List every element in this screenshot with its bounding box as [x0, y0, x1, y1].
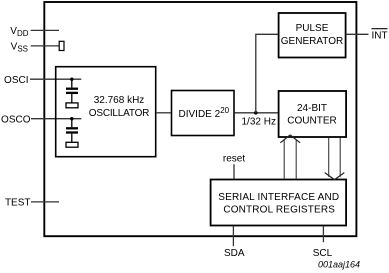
node OSCI junction: [70, 78, 73, 81]
svg-text:SCL: SCL: [313, 248, 333, 259]
bus arrow serial interface to counter (up): [280, 135, 300, 179]
pin OSCO: [1, 114, 31, 125]
net label reset: [223, 154, 245, 165]
svg-text:001aaj164: 001aaj164: [318, 259, 360, 269]
svg-text:SERIAL INTERFACE AND: SERIAL INTERFACE AND: [218, 192, 339, 203]
wire OSCI: [30, 78, 81, 80]
wire SCL: [322, 226, 324, 243]
svg-text:24-BIT: 24-BIT: [297, 103, 327, 114]
svg-text:reset: reset: [223, 154, 245, 165]
oscillator block: [56, 67, 156, 157]
node OSCO junction: [70, 117, 73, 120]
figure id 001aaj164: [318, 259, 360, 269]
svg-text:OSCI: OSCI: [4, 75, 28, 86]
node 1/32 Hz junction: [254, 111, 258, 115]
pin SDA: [224, 248, 245, 259]
svg-text:OSCO: OSCO: [1, 114, 31, 125]
svg-text:PULSE: PULSE: [296, 23, 329, 34]
svg-text:INT: INT: [372, 31, 388, 42]
bus arrow counter to serial interface (down): [325, 138, 345, 180]
counter block: [279, 91, 347, 137]
wire oscillator to divider: [156, 112, 171, 114]
serial interface block: [211, 180, 347, 226]
svg-text:GENERATOR: GENERATOR: [281, 36, 343, 47]
wire divider to counter: [235, 112, 279, 114]
wire junction up to pulse generator: [256, 34, 278, 113]
net label 1/32 Hz: [242, 116, 276, 127]
wire VSS: [31, 45, 60, 47]
svg-text:COUNTER: COUNTER: [287, 115, 336, 126]
svg-text:32.768 kHz: 32.768 kHz: [94, 95, 145, 106]
wire OSCO: [31, 118, 81, 120]
pin VDD: [10, 26, 28, 38]
pulse generator block: [279, 13, 346, 58]
svg-text:CONTROL REGISTERS: CONTROL REGISTERS: [223, 204, 335, 215]
chip boundary box: [44, 2, 356, 236]
capacitor C2 (OSCO trimmer): [66, 119, 78, 148]
pin INT (active low): [372, 29, 388, 42]
VSS terminal box: [59, 41, 64, 50]
wire reset to serial interface: [233, 164, 235, 179]
divider block: [172, 91, 235, 136]
pin SCL: [313, 248, 333, 259]
wire VDD stub: [31, 29, 59, 31]
svg-text:SDA: SDA: [224, 248, 245, 259]
svg-text:TEST: TEST: [5, 197, 31, 208]
svg-text:1/32 Hz: 1/32 Hz: [242, 116, 276, 127]
capacitor C1 (OSCI trimmer): [66, 79, 78, 108]
svg-text:OSCILLATOR: OSCILLATOR: [89, 108, 149, 119]
wire pulse generator to INT pin: [346, 33, 369, 35]
pin VSS: [11, 41, 28, 53]
wire TEST stub: [31, 201, 59, 203]
pin OSCI: [4, 75, 28, 86]
pin TEST: [5, 197, 31, 208]
wire SDA: [232, 226, 234, 247]
